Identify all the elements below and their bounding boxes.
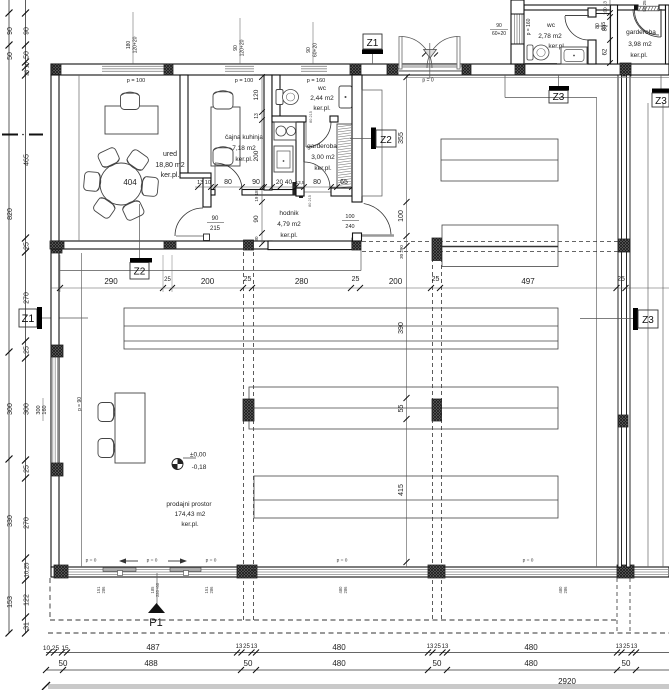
- svg-text:ker.pl.: ker.pl.: [280, 232, 298, 239]
- svg-text:60+20: 60+20: [313, 43, 319, 57]
- kitchen counter with sink (2 circles): [274, 122, 296, 140]
- svg-text:ker.pl.: ker.pl.: [314, 165, 332, 172]
- svg-text:270: 270: [24, 292, 31, 304]
- svg-text:100: 100: [398, 210, 405, 222]
- svg-text:2,44 m2: 2,44 m2: [310, 95, 334, 102]
- tick outer chain: [6, 10, 13, 17]
- hodnik-shop door arc: [364, 204, 391, 237]
- svg-text:153: 153: [7, 596, 14, 608]
- tick inner chain: [22, 355, 29, 362]
- meeting chair: [97, 146, 121, 169]
- svg-text:30 290: 30 290: [399, 245, 404, 259]
- svg-text:ker.pl.: ker.pl.: [161, 172, 180, 179]
- svg-text:p = 0: p = 0: [86, 558, 97, 564]
- svg-text:480: 480: [524, 659, 538, 668]
- garderoba door arc: [304, 162, 330, 188]
- hodnik wall lower stub: [353, 233, 362, 241]
- tick inner chain: [22, 630, 29, 637]
- shelf block top right: [441, 139, 558, 181]
- svg-text:p = 90: p = 90: [77, 397, 83, 411]
- right interior double wall: [618, 75, 622, 567]
- svg-text:25: 25: [352, 276, 360, 283]
- svg-text:497: 497: [521, 277, 535, 286]
- svg-text:Z3: Z3: [553, 92, 565, 103]
- svg-text:90: 90: [7, 27, 14, 35]
- right wall pier upper: [618, 239, 630, 252]
- wall jog horizontal: [180, 173, 211, 178]
- svg-text:90: 90: [252, 179, 260, 186]
- svg-text:62: 62: [603, 48, 609, 55]
- sliding door leaf 2 storefront: [170, 568, 201, 572]
- svg-text:80: 80: [313, 179, 321, 186]
- svg-text:120+20: 120+20: [240, 39, 246, 56]
- window W2 (90/120+20) in top wall: [225, 65, 254, 75]
- svg-text:p = 160: p = 160: [526, 18, 532, 35]
- columns in shop: [243, 399, 254, 421]
- svg-text:200: 200: [253, 150, 260, 161]
- svg-text:90: 90: [253, 215, 260, 223]
- tick outer chain: [6, 630, 13, 637]
- wall kitchen/wc: [272, 75, 280, 117]
- bottom dimension row 1: [46, 652, 669, 654]
- svg-text:480: 480: [524, 643, 538, 652]
- wc toilet: [276, 90, 283, 105]
- garderoba bottom wall east: [331, 188, 352, 196]
- shelf block right second: [442, 225, 558, 267]
- svg-text:2,78 m2: 2,78 m2: [538, 33, 562, 40]
- meeting chair: [92, 195, 117, 219]
- svg-text:286: 286: [209, 586, 214, 594]
- svg-text:25: 25: [244, 276, 252, 283]
- left wall piers: [51, 243, 62, 253]
- interior wall between offices and sales area: [51, 241, 272, 249]
- svg-text:13: 13: [616, 644, 623, 650]
- svg-text:13: 13: [631, 644, 638, 650]
- tick inner chain: [22, 249, 29, 256]
- garderoba wardrobe (hatch): [337, 124, 352, 190]
- tick inner chain: [22, 42, 29, 49]
- desk in ured: [105, 106, 158, 134]
- svg-text:15: 15: [61, 645, 69, 652]
- svg-text:80 215: 80 215: [308, 195, 312, 207]
- svg-text:13: 13: [442, 644, 449, 650]
- svg-text:90: 90: [306, 47, 312, 53]
- svg-text:487: 487: [146, 643, 160, 652]
- thin interior face line ured: [78, 75, 80, 241]
- wc2 door arc: [565, 15, 589, 17]
- svg-text:480: 480: [332, 643, 346, 652]
- svg-text:p = 0: p = 0: [337, 558, 348, 564]
- shelf block C: [254, 476, 558, 518]
- svg-text:p = 100: p = 100: [235, 78, 254, 84]
- tick inner chain: [22, 59, 29, 66]
- tick inner chain: [22, 235, 29, 242]
- kitchen chair 2: [213, 147, 233, 165]
- cash desk chair 2: [98, 439, 115, 458]
- svg-text:31: 31: [24, 622, 31, 630]
- svg-text:465: 465: [24, 154, 31, 166]
- meeting chair: [140, 176, 158, 196]
- meeting chair: [121, 198, 145, 221]
- svg-text:300: 300: [7, 403, 14, 415]
- wc bottom wall: [272, 116, 306, 122]
- svg-text:13,5: 13,5: [296, 180, 305, 185]
- svg-text:p = 0: p = 0: [523, 558, 534, 564]
- svg-text:220+60: 220+60: [155, 582, 160, 597]
- svg-text:25 10: 25 10: [25, 62, 31, 76]
- svg-text:13: 13: [236, 644, 243, 650]
- wc recess top line: [588, 13, 611, 15]
- svg-text:80: 80: [603, 24, 609, 31]
- section marker Z3 (top right edge): [660, 75, 662, 89]
- svg-text:286: 286: [563, 586, 568, 594]
- svg-text:174,43 m2: 174,43 m2: [175, 511, 206, 518]
- svg-text:Z2: Z2: [380, 135, 392, 146]
- axis dashed vertical pair x432/441: [432, 258, 434, 620]
- svg-text:25: 25: [24, 346, 31, 354]
- section marker Z1 (left): [19, 309, 37, 327]
- svg-text:10,25: 10,25: [25, 562, 31, 578]
- svg-text:ker.pl.: ker.pl.: [630, 52, 648, 59]
- meeting table round: [100, 163, 142, 205]
- kitchen table: [211, 107, 240, 166]
- entry threshold glazing: [398, 66, 461, 68]
- interior dimension line y187: [195, 186, 352, 188]
- wing left wall with window: [511, 0, 524, 64]
- entry swing funnel symbol: [424, 50, 437, 59]
- garderoba door threshold: [304, 191, 331, 193]
- kitchen chair 1: [213, 91, 233, 109]
- bottom wall piers: [54, 565, 68, 578]
- axis dashed horizontal pair y241/251: [362, 241, 618, 243]
- tick inner chain: [22, 577, 29, 584]
- svg-text:200: 200: [201, 277, 215, 286]
- horizontal dimension line y288: [51, 287, 669, 289]
- shelf block A: [124, 308, 558, 349]
- top wall piers: [52, 64, 61, 75]
- piers on interior wall: [50, 241, 64, 249]
- canopy dashed outline: [49, 578, 51, 620]
- svg-text:404: 404: [123, 178, 137, 187]
- svg-text:50: 50: [59, 659, 68, 668]
- svg-text:120: 120: [253, 89, 260, 100]
- level marker +-0,00: [172, 459, 183, 470]
- pier below hodnik right wall: [352, 238, 361, 241]
- wing door leaf (hatched): [638, 6, 659, 11]
- axis dashed vertical pair x243/253: [243, 252, 245, 620]
- entry door leaf right: [457, 37, 460, 69]
- svg-text:25: 25: [617, 276, 625, 283]
- wall ured/vestibule lower: [203, 178, 211, 207]
- svg-text:19 18: 19 18: [254, 190, 259, 202]
- svg-text:90: 90: [496, 23, 502, 29]
- hodnik right wall: [352, 75, 362, 202]
- svg-text:80 215: 80 215: [309, 111, 313, 123]
- zone boundary line below wall: [59, 270, 361, 272]
- svg-text:ker.pl.: ker.pl.: [313, 105, 331, 112]
- svg-text:100 13: 100 13: [603, 1, 608, 15]
- svg-text:60+20: 60+20: [492, 31, 506, 37]
- svg-text:488: 488: [144, 659, 158, 668]
- svg-text:240: 240: [345, 224, 354, 230]
- svg-text:garderoba: garderoba: [626, 29, 656, 36]
- svg-text:ured: ured: [163, 151, 177, 158]
- svg-text:120+20: 120+20: [133, 36, 139, 53]
- left outer dimension chain line: [8, 0, 10, 633]
- svg-text:30: 30: [254, 236, 259, 242]
- svg-text:290: 290: [104, 277, 118, 286]
- svg-text:820: 820: [7, 208, 14, 220]
- kitchen door arc: [215, 163, 242, 190]
- tick inner chain: [22, 338, 29, 345]
- kitchen bottom wall: [211, 190, 215, 196]
- axis dash-dot mark left: [2, 134, 18, 136]
- svg-text:18,80 m2: 18,80 m2: [155, 162, 184, 169]
- door jamb foot: [204, 234, 210, 241]
- window W3 annotation: [312, 22, 314, 64]
- wc sink: [339, 86, 352, 108]
- left exterior wall band: [51, 75, 59, 567]
- svg-text:50: 50: [433, 659, 442, 668]
- svg-text:215: 215: [210, 226, 221, 232]
- svg-text:3,00 m2: 3,00 m2: [311, 154, 335, 161]
- wc door arc: [306, 122, 331, 147]
- ured door arc: [175, 208, 203, 236]
- svg-text:90 25: 90 25: [642, 0, 647, 12]
- svg-text:90: 90: [233, 45, 239, 51]
- kitchen counter lower with appliance: [274, 146, 293, 172]
- svg-text:Z3: Z3: [655, 96, 667, 107]
- svg-text:Z1: Z1: [22, 313, 35, 325]
- window W1 (180/120+20) in top wall: [102, 65, 164, 75]
- entry opening threshold: [399, 65, 468, 75]
- right wall pier middle: [618, 415, 628, 427]
- desk chair: [121, 92, 140, 109]
- svg-text:wc: wc: [317, 85, 327, 92]
- wing dim chain x610: [609, 0, 611, 64]
- svg-text:25: 25: [623, 644, 630, 650]
- svg-text:50: 50: [7, 52, 14, 60]
- svg-text:122: 122: [24, 594, 31, 606]
- svg-text:270: 270: [24, 517, 31, 529]
- svg-text:280: 280: [295, 277, 309, 286]
- svg-text:25: 25: [164, 277, 171, 283]
- svg-text:13: 13: [251, 644, 258, 650]
- svg-text:286: 286: [101, 586, 106, 594]
- entry door arc right: [427, 37, 457, 69]
- cash desk: [115, 393, 145, 463]
- shaft niche next to hodnik wall: [362, 90, 382, 196]
- svg-text:25: 25: [243, 644, 250, 650]
- svg-text:25: 25: [434, 644, 441, 650]
- svg-text:286: 286: [343, 586, 348, 594]
- vertical dimension chain x407: [406, 75, 408, 567]
- svg-text:13 10: 13 10: [197, 180, 211, 186]
- entry door leaf left: [399, 37, 402, 69]
- wc2 toilet (sideways): [527, 45, 533, 60]
- thin interior face line left: [81, 253, 83, 567]
- svg-text:200: 200: [389, 277, 403, 286]
- section marker Z3 (right middle): [580, 318, 633, 320]
- tick outer chain: [6, 456, 13, 463]
- section marker Z1 (top): [363, 34, 382, 49]
- tick outer chain: [6, 349, 13, 356]
- wc2 sink: [561, 47, 587, 64]
- kitchen right wall: [264, 75, 272, 190]
- Z3 marker leader left: [504, 75, 506, 98]
- svg-text:p = 0: p = 0: [147, 558, 158, 564]
- tick inner chain: [22, 457, 29, 464]
- svg-text:čajna kuhinja: čajna kuhinja: [225, 134, 263, 141]
- arrow left (door slide direction): [124, 560, 138, 562]
- svg-text:300: 300: [24, 403, 31, 415]
- section marker Z2 (hodnik): [350, 138, 371, 140]
- svg-text:90: 90: [212, 216, 219, 222]
- svg-text:2920: 2920: [558, 677, 576, 686]
- tick outer chain: [6, 42, 13, 49]
- svg-text:10,25: 10,25: [43, 645, 60, 652]
- wall between wc and garderoba: [611, 5, 618, 64]
- svg-text:180: 180: [126, 41, 132, 50]
- tick inner chain: [22, 72, 29, 79]
- kitchen interior dim chain: [261, 77, 263, 244]
- svg-text:50: 50: [622, 659, 631, 668]
- wing top wall right part: [659, 5, 666, 10]
- svg-text:wc: wc: [546, 22, 556, 29]
- wing right wall: [666, 5, 669, 64]
- svg-text:100: 100: [345, 214, 354, 220]
- svg-text:-0,18: -0,18: [192, 464, 207, 471]
- svg-text:p = 0: p = 0: [206, 558, 217, 564]
- svg-text:garderoba: garderoba: [307, 143, 337, 150]
- inner face offset line: [407, 76, 669, 78]
- section marker Z3 (top): [549, 86, 569, 91]
- tick inner chain: [22, 475, 29, 482]
- tick inner chain: [22, 10, 29, 17]
- sliding door leaf 1 storefront: [103, 568, 136, 572]
- wing top wall: [524, 5, 638, 10]
- bottom dimension row 2: [46, 669, 669, 671]
- svg-text:±0,00: ±0,00: [190, 452, 207, 459]
- cash desk chair 1: [98, 403, 115, 422]
- svg-text:55: 55: [398, 405, 405, 413]
- bottom gray band / section line: [48, 684, 669, 689]
- tick inner chain: [22, 614, 29, 621]
- leader table to Z2: [139, 204, 141, 258]
- svg-text:25: 25: [432, 276, 440, 283]
- window W3 (90/60+20) in top wall: [301, 65, 327, 75]
- wall corner stubs at hodnik: [292, 182, 295, 195]
- shelf block B: [249, 387, 558, 429]
- svg-text:355: 355: [398, 132, 405, 144]
- svg-text:90: 90: [24, 27, 31, 35]
- svg-text:Z3: Z3: [642, 315, 654, 326]
- P1 marker: [156, 573, 158, 604]
- svg-text:P1: P1: [149, 617, 162, 629]
- section marker Z2 below ured: [130, 258, 152, 263]
- garderoba2 door: [660, 9, 662, 37]
- wall kitchen-niche/garderoba: [296, 122, 304, 196]
- svg-text:3,98 m2: 3,98 m2: [628, 41, 652, 48]
- wall ured/kitchen upper: [180, 75, 188, 173]
- svg-text:hodnik: hodnik: [279, 210, 299, 217]
- svg-text:25: 25: [24, 465, 31, 473]
- svg-text:p = 100: p = 100: [127, 78, 146, 84]
- tick inner chain: [22, 64, 29, 71]
- window W2 annotation: [239, 18, 241, 64]
- svg-text:50: 50: [24, 51, 31, 59]
- svg-text:390: 390: [398, 322, 405, 334]
- svg-text:25: 25: [24, 242, 31, 250]
- meeting chair: [125, 148, 150, 172]
- facade/annotation thin line x663: [662, 103, 664, 567]
- svg-text:p = 160: p = 160: [307, 78, 326, 84]
- wing door arc: [635, 11, 660, 36]
- svg-text:415: 415: [398, 484, 405, 496]
- window W4 (300/160) in left wall: [52, 357, 59, 463]
- bottom storefront wall band: [51, 567, 669, 577]
- svg-text:50: 50: [244, 659, 253, 668]
- extension lines for y288 dims: [59, 255, 61, 292]
- svg-text:13: 13: [427, 644, 434, 650]
- svg-text:80: 80: [224, 179, 232, 186]
- svg-text:Z1: Z1: [367, 38, 379, 49]
- arrow right (door slide direction): [168, 560, 182, 562]
- left inner dimension chain line: [25, 0, 27, 633]
- window W1 annotation: [132, 12, 134, 64]
- svg-text:p = 0: p = 0: [422, 78, 433, 84]
- top exterior wall band: [51, 64, 669, 75]
- svg-text:480: 480: [332, 659, 346, 668]
- facade/annotation thin line x596: [596, 97, 598, 567]
- facade/annotation thin line x648: [647, 103, 649, 567]
- svg-text:4,79 m2: 4,79 m2: [277, 221, 301, 228]
- svg-text:Z2: Z2: [134, 267, 146, 278]
- svg-text:ker.pl.: ker.pl.: [181, 521, 199, 528]
- tick inner chain: [22, 555, 29, 562]
- wc2 right wall: [588, 8, 596, 17]
- svg-text:65: 65: [340, 179, 348, 186]
- svg-text:13: 13: [254, 113, 260, 119]
- svg-text:prodajni prostor: prodajni prostor: [166, 501, 212, 508]
- garderoba bottom wall stub: [296, 188, 304, 196]
- svg-text:20 40: 20 40: [276, 179, 293, 186]
- entry door arc left: [402, 37, 432, 69]
- svg-text:330: 330: [7, 515, 14, 527]
- meeting chair: [83, 171, 101, 191]
- svg-text:ker.pl.: ker.pl.: [235, 156, 253, 163]
